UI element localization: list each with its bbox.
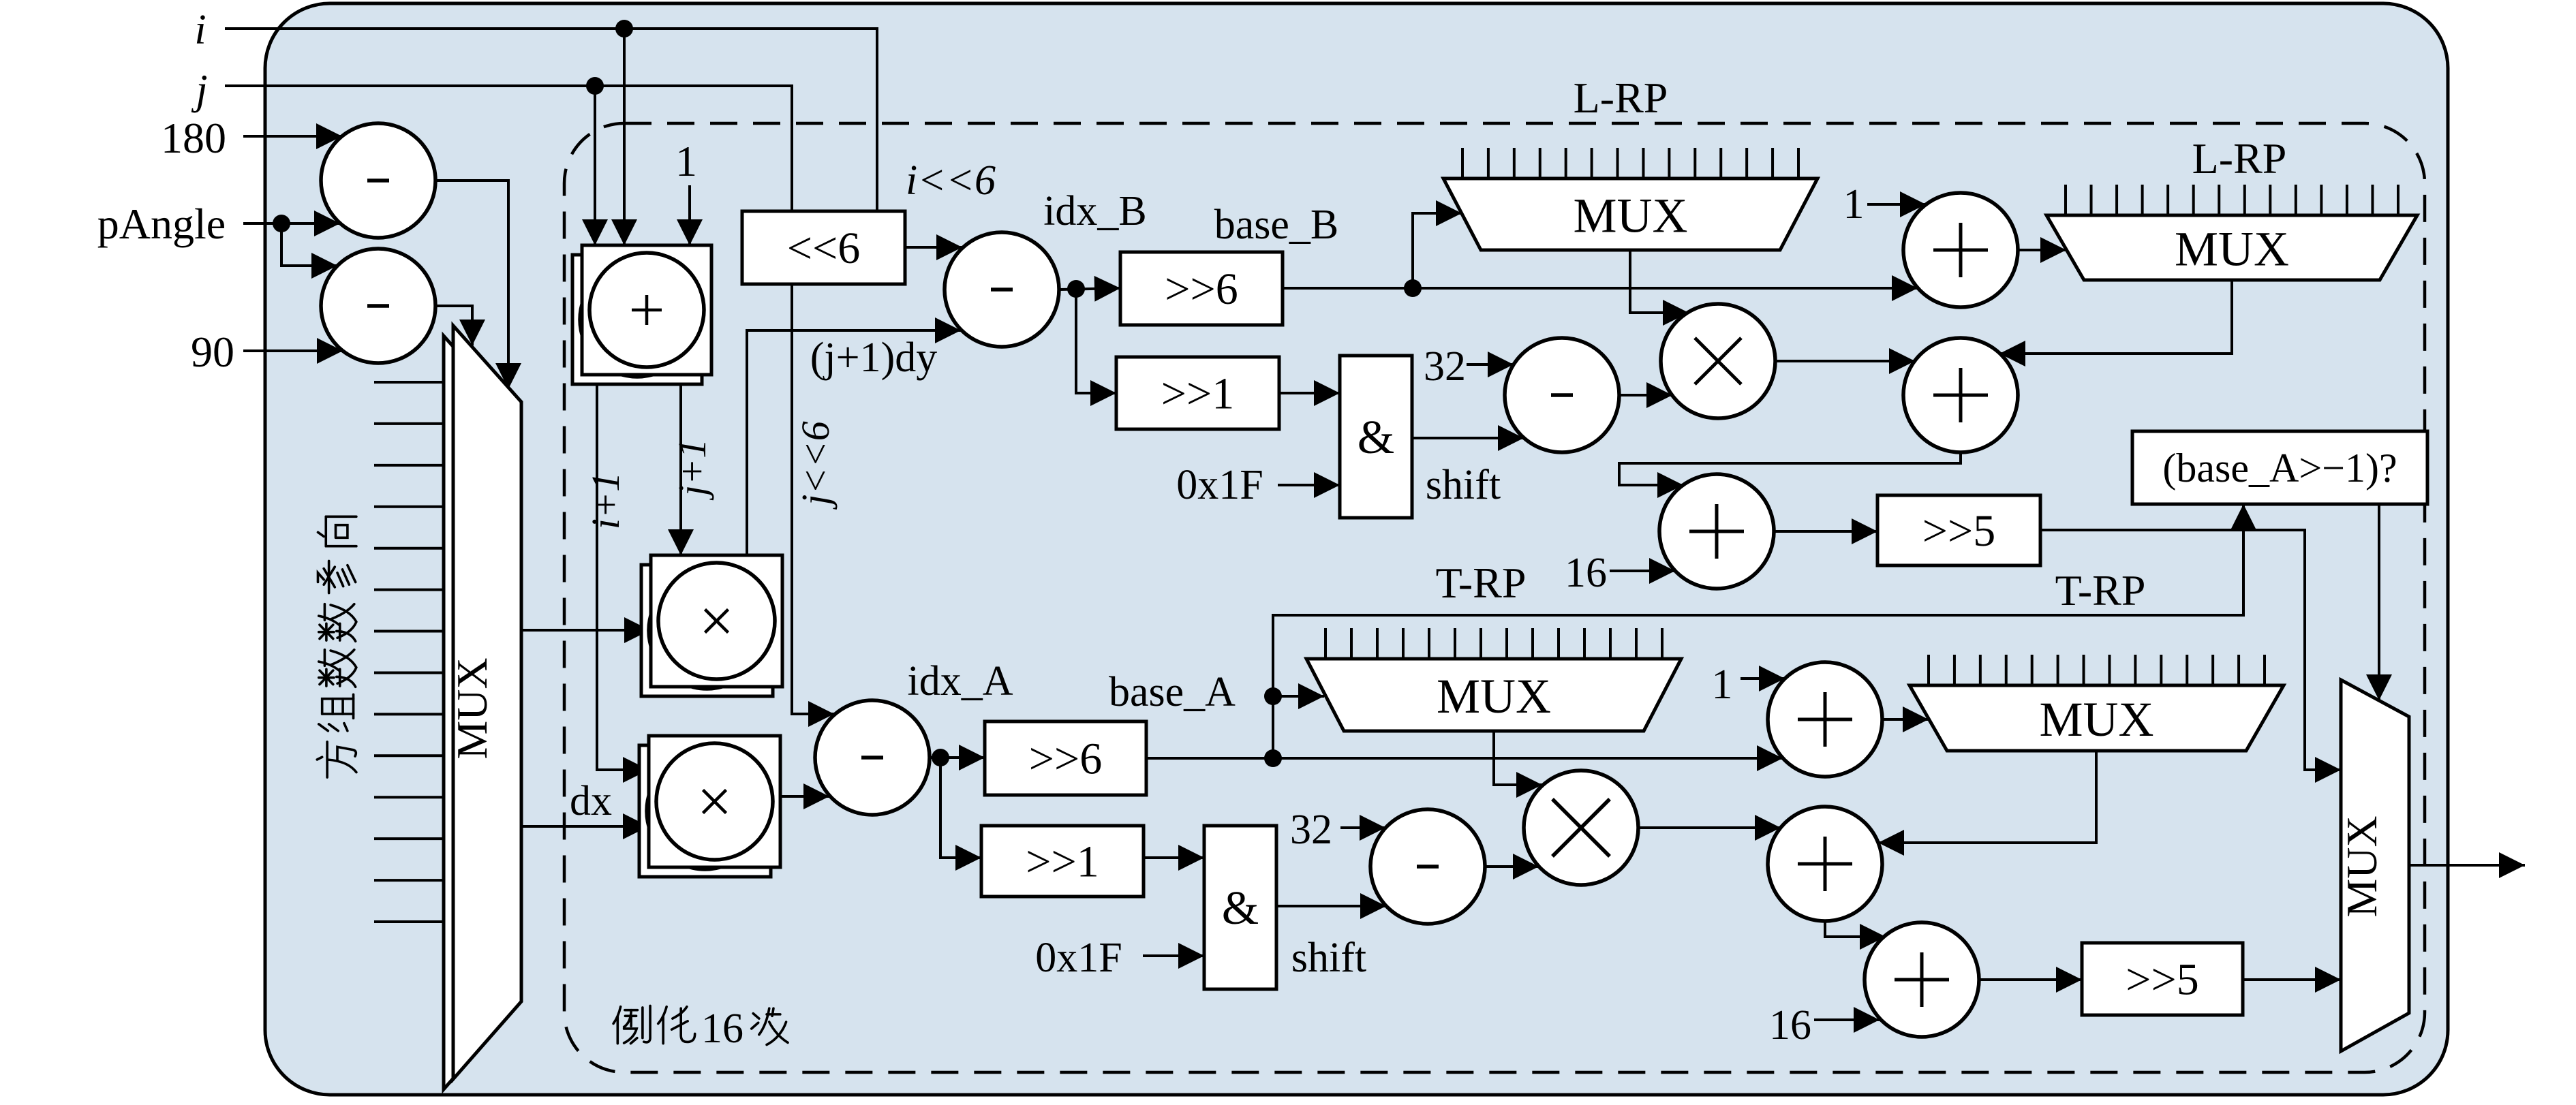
svg-text:idx_B: idx_B [1043,188,1147,234]
svg-text:>>5: >>5 [2126,954,2198,1004]
svg-text:MUX: MUX [1573,189,1687,243]
svg-text:>>6: >>6 [1029,734,1102,783]
svg-text:16: 16 [1769,1002,1811,1048]
svg-text:0x1F: 0x1F [1176,462,1263,508]
svg-text:i<<6: i<<6 [906,157,996,204]
svg-text:shift: shift [1426,462,1501,508]
svg-text:i+1: i+1 [583,472,628,529]
svg-text:16: 16 [1565,550,1607,596]
svg-text:1: 1 [1843,181,1865,228]
svg-text:L-RP: L-RP [1574,74,1668,122]
svg-text:T-RP: T-RP [1436,559,1527,607]
svg-text:>>1: >>1 [1026,837,1099,886]
svg-text:i: i [194,7,206,53]
svg-text:MUX: MUX [1437,669,1551,723]
svg-text:>>6: >>6 [1165,264,1238,314]
svg-text:dx: dx [570,778,612,824]
svg-text:32: 32 [1290,807,1332,853]
svg-text:90: 90 [191,328,234,376]
svg-text:shift: shift [1291,935,1366,981]
svg-text:MUX: MUX [2175,222,2289,277]
svg-text:16: 16 [701,1006,743,1052]
svg-text:MUX: MUX [2337,815,2386,917]
svg-text:MUX: MUX [2039,692,2153,747]
svg-text:&: & [1222,882,1259,935]
svg-text:j<<6: j<<6 [793,421,838,510]
svg-text:1: 1 [1712,662,1733,708]
svg-text:32: 32 [1424,343,1466,390]
svg-text:>>1: >>1 [1161,369,1234,418]
svg-text:T-RP: T-RP [2055,566,2146,614]
svg-text:1: 1 [675,137,697,185]
svg-text:(base_A>−1)?: (base_A>−1)? [2162,446,2397,491]
svg-text:&: & [1358,411,1394,464]
svg-text:0x1F: 0x1F [1035,935,1122,981]
svg-text:j+1: j+1 [670,439,714,501]
svg-text:<<6: <<6 [787,223,860,273]
svg-text:base_B: base_B [1214,202,1339,248]
svg-text:pAngle: pAngle [97,200,226,248]
svg-text:idx_A: idx_A [908,658,1013,704]
svg-text:MUX: MUX [448,657,496,759]
svg-text:180: 180 [161,114,226,162]
svg-text:L-RP: L-RP [2192,134,2287,183]
svg-text:>>5: >>5 [1922,506,1995,556]
svg-text:base_A: base_A [1109,669,1236,715]
svg-text:(j+1)dy: (j+1)dy [810,334,937,381]
